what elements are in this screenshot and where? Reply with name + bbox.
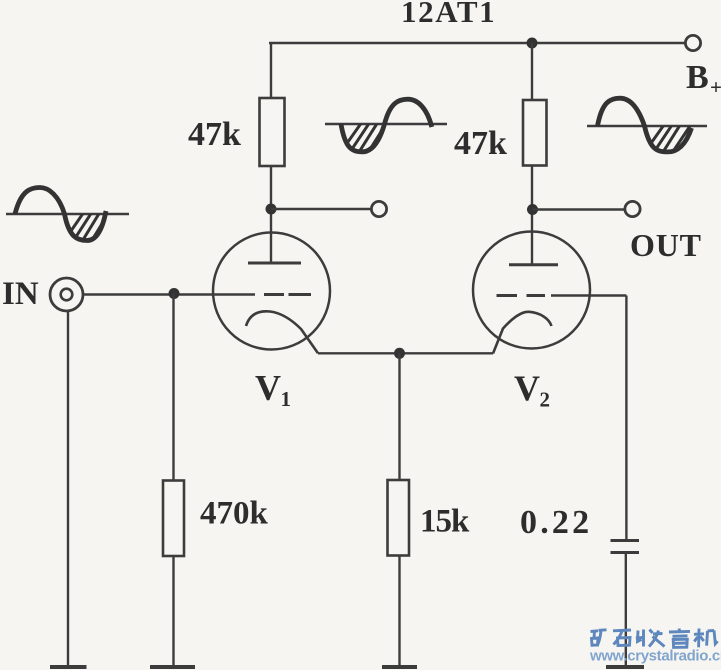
tube V1 envelope — [213, 233, 330, 350]
terminal OUT — [625, 201, 640, 216]
sine wave input (left) curve — [15, 188, 106, 241]
wire: bus to R1 top — [270, 43, 272, 98]
svg-text:470k: 470k — [200, 496, 269, 532]
wire: junction down to R3 — [398, 353, 400, 480]
capacitor C1 0.22 plates — [611, 539, 640, 542]
node junction cathodes/15k — [394, 348, 405, 359]
tube V1 grid dashes — [264, 293, 284, 296]
矿 — [591, 629, 599, 633]
svg-text:12AT1: 12AT1 — [401, 0, 496, 29]
svg-text:www.crystalradio.cn: www.crystalradio.cn — [589, 648, 721, 665]
tube V1 plate bar — [248, 262, 301, 265]
resistor R1 47k (V1 plate load) — [260, 98, 285, 166]
sine wave V1 anode curve — [341, 99, 432, 152]
svg-text:IN: IN — [2, 276, 39, 312]
svg-text:V: V — [514, 368, 540, 408]
tube V2 plate bar — [509, 263, 558, 266]
ground under 15k — [382, 665, 417, 669]
svg-text:2: 2 — [540, 388, 551, 412]
sine wave V1 anode (middle, inverted) baseline — [325, 123, 447, 126]
node junction bus/R2 — [527, 38, 538, 49]
机 — [694, 632, 704, 635]
svg-text:1: 1 — [281, 387, 292, 411]
ground under capacitor — [606, 665, 644, 669]
wire: R3 bottom to ground — [398, 556, 400, 667]
收 — [638, 631, 642, 642]
node junction V2 plate — [527, 204, 538, 215]
sine wave input (left) baseline — [6, 213, 129, 216]
ground under IN — [50, 665, 87, 669]
wire: IN jack down to ground — [67, 311, 69, 666]
tube V1 cathode — [246, 311, 318, 353]
sine wave output hatching — [642, 122, 690, 162]
terminal B+ — [685, 35, 700, 50]
svg-text:47k: 47k — [454, 125, 507, 162]
node junction grid/470k — [169, 288, 180, 299]
wire: cathode bus — [318, 352, 493, 354]
tube V2 grid dashes — [497, 294, 518, 297]
resistor R4 470k (grid leak) — [163, 481, 184, 557]
wire: V1 plate junction to terminal — [271, 208, 372, 210]
sine wave V1 anode hatching — [338, 122, 386, 162]
node junction V1 plate — [266, 204, 277, 215]
wire: V2 grid to cap drop — [551, 294, 626, 296]
wire: R2 bottom to V2 plate — [531, 166, 533, 265]
wire: junction down to R4 — [172, 294, 174, 481]
terminal V1 plate output — [371, 201, 386, 216]
sine wave input hatching — [62, 212, 108, 250]
svg-text:OUT: OUT — [630, 227, 702, 263]
wire: R1 bottom to V1 plate — [270, 166, 272, 263]
ground under 470k — [150, 665, 195, 669]
watermark 矿石收音机 (drawn strokes) — [591, 629, 718, 648]
terminal IN jack — [50, 278, 83, 311]
音 — [669, 630, 690, 633]
wire: IN jack to V1 grid — [83, 293, 255, 295]
wire: B+ bus top horizontal — [269, 42, 685, 44]
sine wave output (right) baseline — [587, 125, 707, 128]
sine wave output curve — [598, 98, 692, 152]
svg-text:15k: 15k — [420, 504, 470, 540]
svg-text:47k: 47k — [188, 116, 241, 153]
tube V2 envelope — [473, 232, 590, 349]
wire: grid corner down to capacitor — [625, 296, 627, 541]
svg-text:0.22: 0.22 — [520, 504, 592, 541]
svg-text:B: B — [686, 59, 709, 96]
svg-text:V: V — [255, 368, 281, 408]
石 — [613, 629, 631, 633]
wire: bus to R2 top — [531, 43, 533, 100]
resistor R3 15k (cathode) — [388, 480, 410, 556]
resistor R2 47k (V2 plate load) — [523, 100, 547, 166]
wire: capacitor to ground — [625, 553, 627, 667]
tube V2 cathode — [493, 312, 552, 354]
svg-text:+: + — [710, 75, 721, 99]
wire: V2 plate junction to OUT terminal — [533, 208, 625, 210]
wire: R4 bottom to ground — [172, 556, 174, 666]
